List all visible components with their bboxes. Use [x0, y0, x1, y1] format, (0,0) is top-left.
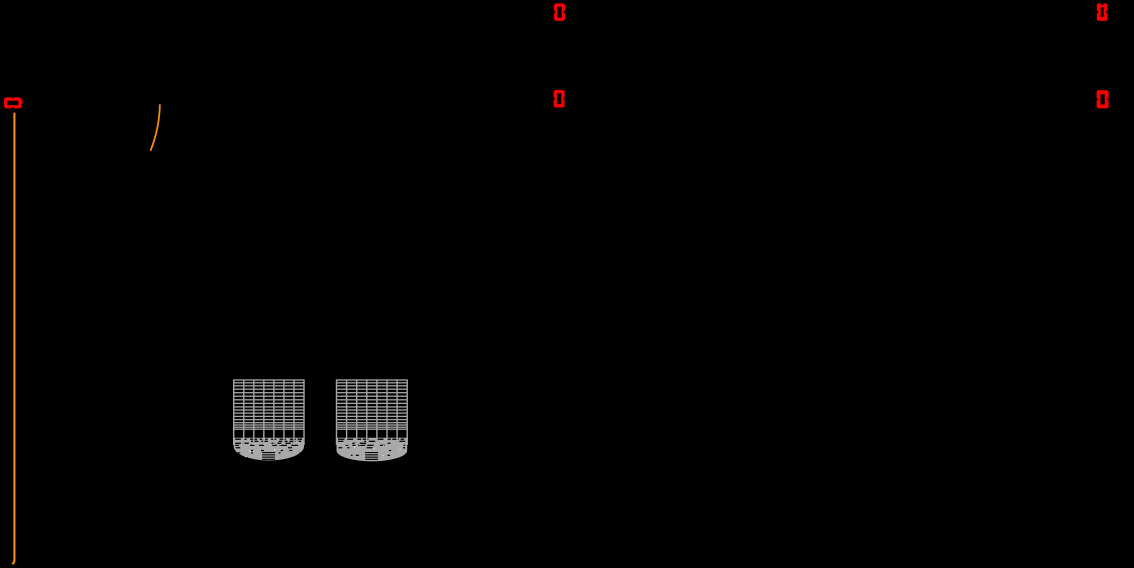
wire W2 (orange curved wire) — [151, 104, 160, 151]
node label 0 (D, lower right) — [1096, 90, 1108, 108]
node label 0 (C, upper right) — [1097, 3, 1108, 21]
wire W1 (orange vertical wire, left) — [12, 113, 14, 565]
node label 0 (rotated, top of left wire) — [4, 97, 23, 108]
wireframe cylinder mesh 2 (right) — [336, 379, 408, 461]
node label 0 (B, lower middle) — [553, 90, 564, 108]
node label 0 (A, upper middle) — [554, 3, 565, 21]
wireframe cylinder mesh 1 (left) — [233, 379, 305, 460]
